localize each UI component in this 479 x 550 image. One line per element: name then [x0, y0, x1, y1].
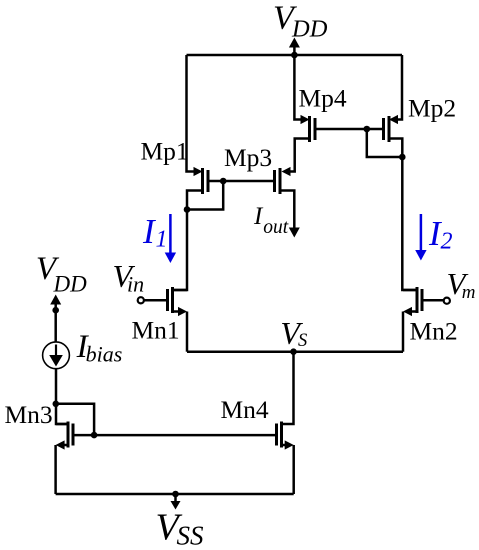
wire: VDD rail down to Mp2 source: [396, 55, 402, 120]
wire: Mn3 gate-drain tie: [56, 404, 94, 435]
VDD supply arrow: [289, 38, 300, 48]
wire: Ibias down to Mn3 drain: [56, 369, 68, 424]
wire: VS down to Mn4 drain: [282, 352, 294, 424]
junction dot (Mn3 drain node): [53, 401, 60, 408]
arrow Iout: [289, 228, 300, 238]
current arrow I1 (blue): [169, 214, 172, 254]
svg-text:out: out: [263, 217, 289, 238]
wire: gate line tie to Mp2 drain: [367, 129, 403, 157]
svg-text:2: 2: [441, 229, 453, 255]
junction dot on VDD rail: [291, 52, 298, 59]
svg-text:bias: bias: [86, 342, 123, 367]
junction dot (Mp4/Mp2 gate line): [364, 126, 371, 133]
power rail VDD (top): [187, 54, 403, 57]
wire: Mp1 drain lead: [187, 191, 203, 210]
wire: Mn3 source down to VSS rail: [54, 445, 57, 494]
wire: Mn3 gate lead: [75, 434, 95, 437]
VSS supply arrow: [174, 494, 177, 501]
input terminal Vin: [138, 297, 144, 303]
junction dot VS: [290, 348, 297, 355]
transistor Mn2: [416, 287, 419, 313]
transistor Mn1: [171, 287, 174, 313]
svg-text:m: m: [462, 282, 476, 303]
input terminal Vm: [444, 298, 450, 304]
junction dot (Mp1 drain node): [184, 206, 191, 213]
current arrow I2 (blue): [420, 214, 423, 252]
VDD supply arrow (left): [50, 295, 61, 305]
svg-text:Mn2: Mn2: [410, 317, 458, 346]
current source Ibias: [43, 342, 70, 369]
transistor Mp4: [301, 115, 310, 124]
transistor Mn3: [67, 422, 70, 448]
svg-text:DD: DD: [291, 15, 328, 42]
wire: Vin terminal to Mn1 gate: [144, 299, 168, 302]
svg-text:S: S: [298, 331, 307, 351]
wire: Mn4 source down to VSS rail: [292, 445, 295, 494]
junction dot (Mn3/Mn4 gate line): [91, 432, 98, 439]
wire: Mp2 drain down to Mn2 drain: [389, 139, 417, 291]
svg-text:DD: DD: [53, 272, 88, 297]
transistor Mp3: [282, 167, 291, 176]
svg-text:SS: SS: [177, 521, 205, 550]
svg-text:Mp2: Mp2: [408, 94, 456, 123]
wire: VDD rail down to Mp1 source: [187, 55, 197, 172]
junction dot on VSS rail: [172, 491, 179, 498]
wire: Mp3 drain to Iout: [280, 191, 294, 229]
wire: VDD rail down to Mp4 source: [294, 55, 303, 120]
transistor Mp2: [389, 115, 398, 124]
junction dot below left VDD arrow: [52, 307, 59, 314]
svg-text:Mn4: Mn4: [221, 395, 269, 424]
wire: source coupling node VS: [187, 350, 403, 353]
wire: Mp1 drain node down to Mn1 drain: [173, 210, 188, 291]
transistor Mn4: [280, 422, 283, 448]
junction dot node (Mp1 gate tie): [220, 178, 227, 185]
wire: Mp1 gate lead to Mp3 gate: [210, 180, 275, 183]
svg-text:Mn1: Mn1: [132, 316, 180, 345]
junction dot (Mp2 drain node): [399, 154, 406, 161]
wire: Mp4 gate lead to Mp2 gate: [317, 128, 384, 131]
power rail VSS (bottom): [56, 493, 294, 496]
svg-text:Mp4: Mp4: [299, 84, 347, 113]
wire: Mn3 gate to Mn4 gate: [94, 434, 276, 437]
wire: Mn2 source down to VS wire: [402, 312, 405, 352]
svg-text:Mp1: Mp1: [141, 137, 189, 166]
svg-text:in: in: [127, 272, 144, 297]
svg-text:Mp3: Mp3: [224, 143, 272, 172]
wire: Mp1 gate-drain tie: [187, 181, 223, 210]
transistor Mp1: [194, 167, 203, 176]
wire: Mp4 drain down to Mp3 source: [288, 139, 310, 172]
svg-text:Mn3: Mn3: [5, 400, 53, 429]
svg-text:1: 1: [156, 227, 168, 253]
wire: Mn2 gate to Vm terminal: [424, 299, 444, 302]
wire: Mn1 source down to VS wire: [186, 312, 189, 352]
